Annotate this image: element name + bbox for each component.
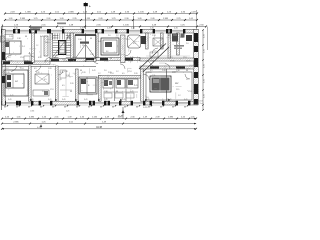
- svg-text:88: 88: [90, 38, 92, 40]
- svg-text:88: 88: [64, 107, 66, 109]
- svg-text:17.85: 17.85: [83, 61, 88, 63]
- svg-text:1.2: 1.2: [6, 68, 9, 70]
- svg-text:17.8: 17.8: [20, 57, 24, 59]
- svg-text:1.2: 1.2: [116, 71, 119, 73]
- svg-text:4.5: 4.5: [60, 49, 63, 51]
- svg-text:87.5 m2: 87.5 m2: [198, 103, 204, 105]
- svg-text:1.385: 1.385: [163, 18, 169, 20]
- svg-text:1.2: 1.2: [36, 45, 38, 47]
- svg-text:8.8: 8.8: [106, 51, 108, 53]
- svg-text:3.41: 3.41: [62, 99, 66, 101]
- svg-text:88: 88: [52, 107, 54, 109]
- svg-text:88: 88: [70, 91, 72, 93]
- svg-text:2.26: 2.26: [174, 28, 178, 30]
- svg-text:1.2: 1.2: [170, 57, 173, 59]
- svg-text:88: 88: [124, 107, 126, 109]
- svg-text:1.2: 1.2: [98, 73, 101, 75]
- svg-text:88: 88: [110, 58, 112, 60]
- svg-text:2.0: 2.0: [186, 79, 189, 81]
- svg-text:88: 88: [116, 91, 118, 93]
- svg-text:2.26: 2.26: [68, 45, 72, 47]
- svg-text:2.385: 2.385: [29, 117, 35, 119]
- svg-text:2.385: 2.385: [13, 122, 19, 124]
- svg-text:4.5: 4.5: [122, 73, 125, 75]
- svg-text:1.38: 1.38: [176, 70, 180, 72]
- svg-text:2.0: 2.0: [146, 97, 149, 99]
- svg-text:88: 88: [16, 107, 18, 109]
- svg-text:17.85: 17.85: [44, 61, 49, 63]
- svg-text:1.385: 1.385: [168, 117, 174, 119]
- svg-text:88: 88: [172, 107, 174, 109]
- svg-text:3.41: 3.41: [40, 36, 44, 38]
- svg-text:17.8: 17.8: [128, 71, 132, 73]
- svg-text:3.41: 3.41: [92, 70, 96, 72]
- svg-text:4.41: 4.41: [37, 127, 41, 129]
- svg-text:88: 88: [4, 107, 6, 109]
- svg-text:2.26: 2.26: [172, 72, 176, 74]
- svg-text:1.2: 1.2: [8, 57, 11, 59]
- svg-text:44.38: 44.38: [96, 127, 102, 129]
- svg-text:2.26: 2.26: [60, 28, 64, 30]
- svg-text:3.415: 3.415: [143, 107, 148, 109]
- svg-text:1.135: 1.135: [92, 117, 98, 119]
- svg-text:17.85: 17.85: [150, 61, 155, 63]
- svg-text:4.5: 4.5: [150, 70, 153, 72]
- svg-text:2.385: 2.385: [20, 18, 26, 20]
- svg-text:3.41: 3.41: [84, 99, 88, 101]
- svg-text:17.8: 17.8: [188, 91, 192, 93]
- svg-text:3.41: 3.41: [122, 99, 126, 101]
- svg-text:88: 88: [160, 107, 162, 109]
- svg-text:1.38: 1.38: [17, 38, 21, 40]
- svg-text:2.26: 2.26: [150, 28, 154, 30]
- svg-text:1.135: 1.135: [123, 25, 129, 27]
- svg-text:2.26: 2.26: [6, 72, 10, 74]
- svg-text:3.41: 3.41: [98, 41, 102, 43]
- svg-text:2.26: 2.26: [140, 37, 144, 39]
- svg-text:17.8: 17.8: [126, 39, 130, 41]
- svg-text:2.26: 2.26: [131, 28, 135, 30]
- svg-text:2.26: 2.26: [66, 111, 69, 113]
- svg-text:17.8: 17.8: [110, 73, 114, 75]
- svg-text:2.0: 2.0: [150, 58, 153, 60]
- svg-text:4.5: 4.5: [38, 57, 41, 59]
- svg-text:2.0: 2.0: [186, 43, 189, 45]
- svg-text:2.0: 2.0: [45, 42, 48, 44]
- svg-text:3.41: 3.41: [180, 37, 184, 39]
- svg-text:88: 88: [100, 107, 102, 109]
- svg-text:2.26: 2.26: [48, 68, 52, 70]
- svg-text:1.38: 1.38: [78, 39, 82, 41]
- svg-text:17.8: 17.8: [183, 57, 187, 59]
- svg-text:1.135: 1.135: [85, 18, 91, 20]
- svg-text:2.26: 2.26: [62, 59, 66, 61]
- svg-text:88: 88: [136, 107, 138, 109]
- svg-text:88: 88: [28, 107, 30, 109]
- svg-text:3.41: 3.41: [134, 85, 138, 87]
- svg-text:1.38: 1.38: [64, 71, 68, 73]
- svg-text:17.85: 17.85: [170, 61, 175, 63]
- svg-text:2.26: 2.26: [107, 28, 111, 30]
- svg-text:88: 88: [80, 70, 82, 72]
- svg-text:1.385: 1.385: [30, 111, 34, 113]
- svg-text:4.5: 4.5: [133, 43, 136, 45]
- svg-text:2.0: 2.0: [108, 35, 111, 37]
- svg-text:4.5: 4.5: [44, 79, 47, 81]
- svg-text:17.8: 17.8: [50, 89, 54, 91]
- svg-text:3.41: 3.41: [184, 99, 188, 101]
- svg-text:1.38: 1.38: [90, 54, 94, 56]
- svg-text:2.0: 2.0: [26, 95, 29, 97]
- svg-text:1.385: 1.385: [25, 12, 31, 14]
- svg-text:17.85: 17.85: [8, 61, 13, 63]
- svg-text:2.26: 2.26: [134, 73, 138, 75]
- svg-text:Zi 1: Zi 1: [22, 46, 25, 48]
- svg-text:2.26: 2.26: [152, 75, 155, 77]
- svg-text:3.41: 3.41: [130, 91, 134, 93]
- svg-text:3.41: 3.41: [130, 57, 134, 59]
- svg-text:2.26: 2.26: [9, 36, 13, 38]
- svg-text:1.2: 1.2: [116, 35, 119, 37]
- svg-text:2.26: 2.26: [80, 28, 84, 30]
- svg-text:88: 88: [168, 35, 170, 37]
- svg-text:2.26: 2.26: [148, 72, 152, 74]
- svg-text:1.2: 1.2: [42, 91, 45, 93]
- svg-text:4.5: 4.5: [62, 85, 65, 87]
- svg-text:88: 88: [186, 70, 188, 72]
- svg-text:88: 88: [88, 107, 90, 109]
- svg-text:1.38: 1.38: [104, 91, 108, 93]
- svg-text:2.26: 2.26: [60, 72, 64, 74]
- svg-text:21.5: 21.5: [176, 89, 179, 91]
- svg-text:88: 88: [76, 107, 78, 109]
- svg-text:88: 88: [25, 36, 27, 38]
- svg-text:12: 12: [82, 45, 84, 47]
- svg-text:17.85: 17.85: [24, 61, 29, 63]
- svg-text:2.26: 2.26: [82, 72, 86, 74]
- svg-text:3.41: 3.41: [8, 99, 12, 101]
- svg-text:88: 88: [152, 102, 154, 104]
- svg-text:3.41: 3.41: [104, 99, 108, 101]
- svg-text:17.85: 17.85: [186, 61, 191, 63]
- svg-text:88: 88: [184, 107, 186, 109]
- svg-text:2.385: 2.385: [68, 12, 74, 14]
- svg-text:2.26: 2.26: [70, 83, 74, 85]
- svg-text:2.26: 2.26: [14, 28, 18, 30]
- svg-text:4.5: 4.5: [34, 68, 37, 70]
- svg-text:2.0: 2.0: [104, 70, 107, 72]
- svg-text:1.135: 1.135: [138, 12, 144, 14]
- svg-text:1.38: 1.38: [152, 35, 156, 37]
- svg-text:2.26: 2.26: [36, 72, 40, 74]
- svg-text:17.8: 17.8: [20, 68, 24, 70]
- svg-text:88: 88: [148, 107, 150, 109]
- svg-text:17.85: 17.85: [104, 61, 109, 63]
- svg-text:88: 88: [40, 107, 42, 109]
- svg-text:3.41: 3.41: [10, 95, 14, 97]
- svg-text:1.2: 1.2: [178, 95, 181, 97]
- svg-text:3.41: 3.41: [48, 99, 52, 101]
- svg-text:88: 88: [112, 107, 114, 109]
